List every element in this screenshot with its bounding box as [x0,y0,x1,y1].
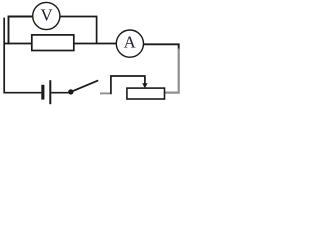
wire: battery to switch [51,92,68,94]
wire: left outer rail [4,18,41,93]
rheostat slider arm wire [111,76,145,94]
wire: voltmeter right, down to resistor row [60,17,97,44]
wire: top-left corner to voltmeter [9,17,33,45]
wire: resistor to ammeter [74,43,117,45]
resistor R [32,35,74,51]
wire: gray stub after switch [100,92,110,94]
wire: right rail (gray) to rheostat [164,49,178,93]
switch pivot dot [68,89,73,94]
voltmeter V [33,2,60,29]
svg-text:A: A [124,33,136,52]
rheostat body [127,88,165,99]
rheostat slider arrowhead [142,83,147,88]
battery cell: thin long positive plate [49,80,51,104]
switch blade (open) [72,80,99,91]
battery cell: thick short negative plate [41,85,44,100]
wire: ammeter to top-right corner [144,44,179,50]
svg-text:V: V [40,5,52,24]
ammeter A [116,30,143,57]
wire: row to resistor left [4,43,32,45]
